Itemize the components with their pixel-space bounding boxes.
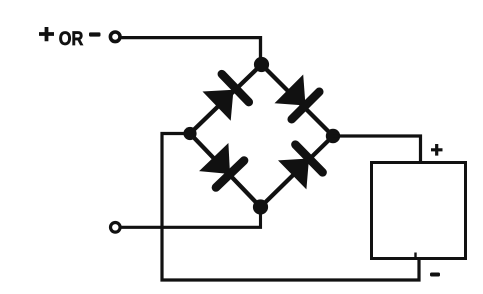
diode CR3 (left node to bottom node)	[199, 143, 244, 188]
wire left node to bottom node	[190, 134, 261, 208]
stub at load box bottom wire junction	[414, 253, 416, 260]
wire left node to top node	[190, 65, 262, 134]
junction dot: bridge bottom node	[253, 199, 268, 214]
wire top node to right node	[262, 65, 334, 137]
wire bottom node to right node	[261, 136, 334, 207]
diode CR2 (top node to right node)	[275, 75, 320, 120]
svg-text:OR: OR	[59, 28, 84, 50]
diode CR4 (bottom node to right node)	[278, 145, 323, 190]
terminal T2 (AC input, bottom left)	[111, 223, 121, 233]
wire T2 to bridge bottom node	[122, 211, 261, 227]
diode CR1 (left node to top node)	[203, 74, 249, 121]
wire right node to load top (positive output)	[333, 136, 421, 163]
terminal T1 (AC input, top)	[110, 32, 120, 42]
input polarity label "+ OR -"	[39, 27, 101, 50]
wire T1 to bridge top node	[122, 38, 261, 60]
junction dot: bridge right node	[326, 129, 340, 143]
load box (battery / load)	[372, 163, 466, 259]
junction dot: bridge left node	[183, 127, 196, 140]
output polarity label "-"	[430, 273, 440, 277]
wire left node to load bottom (negative output)	[162, 134, 419, 281]
junction dot: bridge top node	[254, 57, 269, 72]
output polarity label "+"	[431, 144, 443, 156]
